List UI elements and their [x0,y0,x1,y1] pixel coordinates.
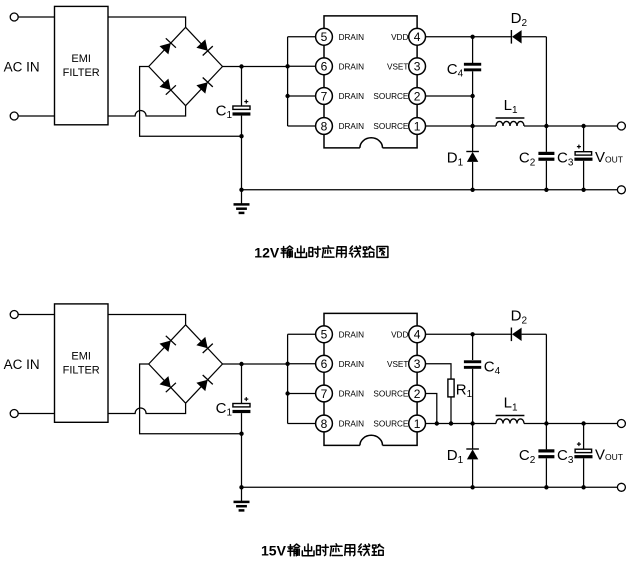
pin label SOURCE (pin 1) [373,122,409,131]
wire [288,95,316,97]
svg-text:2: 2 [414,387,421,401]
svg-text:12V: 12V [254,245,280,261]
pin label DRAIN (pin 8) [339,420,365,429]
wire [583,161,585,190]
svg-text:1: 1 [414,119,421,133]
wire [108,17,186,27]
svg-text:7: 7 [321,387,328,401]
label VOUT [595,149,623,166]
label C1 [216,400,233,419]
label AC IN [4,357,40,372]
label C3 [557,447,574,466]
svg-text:DRAIN: DRAIN [339,390,365,399]
bridge rectifier diode (bottom-left) [149,364,186,403]
label C1 [216,102,233,121]
junction [470,332,474,336]
svg-text:3: 3 [414,60,421,74]
IC U1 package [324,313,417,445]
junction [285,64,289,68]
wire [545,37,547,152]
svg-text:DRAIN: DRAIN [339,122,365,131]
svg-text:8: 8 [321,119,328,133]
junction [470,35,474,39]
junction [449,421,453,425]
pin 7 [316,385,333,402]
wire [288,393,316,395]
capacitor C4 [464,63,481,72]
svg-text:FILTER: FILTER [63,67,100,79]
junction [544,485,548,489]
junction [239,362,243,366]
wire [241,116,243,190]
inductor L1 [496,118,525,126]
wire [288,423,316,425]
svg-text:DRAIN: DRAIN [339,92,365,101]
pin 8 [316,118,333,135]
wire [472,334,474,360]
wire [287,37,289,126]
inductor L1 [496,416,525,424]
svg-text:DRAIN: DRAIN [339,360,365,369]
label C4 [484,358,501,377]
junction [239,134,243,138]
output return terminal [617,186,625,194]
wire [426,423,497,425]
junction [544,421,548,425]
wire [241,364,243,404]
junction [544,188,548,192]
junction [544,124,548,128]
svg-text:5: 5 [321,328,328,342]
wire [426,125,497,127]
svg-text:4: 4 [414,30,421,44]
wire [223,363,288,365]
wire with hop-over [108,106,186,116]
diode D2 [511,328,521,342]
pin label SOURCE (pin 1) [373,420,409,429]
svg-text:AC IN: AC IN [4,59,40,74]
pin 3 [409,58,426,75]
capacitor C1 (polarized) [233,397,251,413]
pin label DRAIN (pin 6) [339,62,365,71]
svg-text:4: 4 [414,328,421,342]
ground [234,190,250,213]
EMI filter block [55,304,109,422]
svg-text:15V: 15V [261,543,287,559]
pin 6 [316,355,333,372]
wire [583,424,585,450]
wire [18,115,54,117]
output terminal VOUT [617,122,625,130]
junction [239,485,243,489]
diode D2 [511,30,521,44]
junction [581,485,585,489]
svg-text:5: 5 [321,30,328,44]
bridge rectifier diode (bottom-right) [186,67,223,106]
junction [470,421,474,425]
svg-text:7: 7 [321,89,328,103]
label C3 [557,150,574,169]
pin label DRAIN (pin 5) [339,330,365,339]
label AC IN [4,59,40,74]
capacitor C4 [464,360,481,369]
wire [140,67,242,137]
svg-text:FILTER: FILTER [63,364,100,376]
svg-text:6: 6 [321,60,328,74]
junction [435,421,439,425]
wire [545,458,547,487]
pin 5 [316,28,333,45]
wire [288,36,316,38]
AC input terminal upper (upper circuit) [10,13,18,21]
wire [472,37,474,63]
svg-text:SOURCE: SOURCE [373,390,409,399]
junction [285,94,289,98]
wire [426,95,473,97]
pin label SOURCE (pin 2) [373,92,409,101]
bridge rectifier diode (top-right) [186,27,223,66]
output return terminal [617,483,625,491]
junction [470,485,474,489]
svg-text:SOURCE: SOURCE [373,92,409,101]
pin 6 [316,58,333,75]
wire [108,315,186,325]
diode D1 [466,449,479,487]
svg-text:VDD: VDD [391,330,408,339]
junction [470,124,474,128]
wire [522,36,547,38]
svg-text:DRAIN: DRAIN [339,330,365,339]
wire [450,397,452,424]
pin label SOURCE (pin 2) [373,390,409,399]
AC input terminal upper (lower circuit) [10,311,18,319]
EMI filter block [55,6,109,124]
AC input terminal lower (lower circuit) [10,410,18,418]
junction [470,188,474,192]
bridge rectifier diode (top-left) [149,27,186,66]
pin label DRAIN (pin 7) [339,92,365,101]
junction [581,188,585,192]
wire [241,413,243,487]
wire [426,36,512,38]
capacitor C1 (polarized) [233,100,251,116]
label D2 [511,10,528,29]
capacitor C3 (polarized) [574,145,592,161]
wire [288,363,316,365]
svg-text:DRAIN: DRAIN [339,33,365,42]
pin label VDD (pin 4) [391,33,408,42]
caption: 15V output application circuit [261,543,384,559]
label R1 [456,381,473,400]
output terminal VOUT [617,420,625,428]
label L1 [504,395,518,414]
wire [140,364,242,434]
wire [242,486,618,488]
wire [288,65,316,67]
svg-text:DRAIN: DRAIN [339,420,365,429]
svg-text:VSET: VSET [387,360,408,369]
wire [472,71,474,151]
wire [522,333,547,335]
label C2 [519,447,536,466]
wire [288,125,316,127]
AC input terminal lower (upper circuit) [10,112,18,120]
wire [426,364,452,379]
label C4 [447,61,464,80]
capacitor C2 [538,152,554,161]
bridge rectifier diode (top-left) [149,325,186,364]
diode D1 [466,152,479,190]
wire [287,334,289,423]
pin 1 [409,415,426,432]
pin label DRAIN (pin 6) [339,360,365,369]
pin 8 [316,415,333,432]
wire [545,334,547,449]
wire [18,16,54,18]
wire [426,394,437,424]
bridge rectifier diode (top-right) [186,325,223,364]
wire [426,333,512,335]
wire [583,126,585,152]
junction [239,64,243,68]
IC U1 package [324,16,417,148]
pin label VDD (pin 4) [391,330,408,339]
resistor R1 [448,379,454,397]
junction [239,432,243,436]
svg-text:DRAIN: DRAIN [339,62,365,71]
pin 4 [409,28,426,45]
caption: 12V output application circuit [254,245,388,261]
pin 7 [316,88,333,105]
wire [242,189,618,191]
junction [285,362,289,366]
wire [583,458,585,487]
bridge rectifier diode (bottom-left) [149,67,186,106]
svg-text:EMI: EMI [71,53,91,65]
pin 3 [409,355,426,372]
wire [223,66,288,68]
svg-text:3: 3 [414,357,421,371]
label D1 [447,447,464,466]
ground [234,487,250,510]
svg-text:6: 6 [321,357,328,371]
wire [18,314,54,316]
svg-text:SOURCE: SOURCE [373,420,409,429]
svg-text:SOURCE: SOURCE [373,122,409,131]
wire [524,125,617,127]
svg-text:1: 1 [414,417,421,431]
wire [472,369,474,449]
wire [524,423,617,425]
pin 4 [409,326,426,343]
svg-text:AC IN: AC IN [4,357,40,372]
pin label DRAIN (pin 8) [339,122,365,131]
svg-text:VDD: VDD [391,33,408,42]
pin 2 [409,88,426,105]
wire [18,413,54,415]
wire with hop-over [108,403,186,413]
label C2 [519,150,536,169]
pin 1 [409,118,426,135]
label D2 [511,308,528,327]
junction [239,188,243,192]
svg-text:VSET: VSET [387,62,408,71]
svg-text:8: 8 [321,417,328,431]
label VOUT [595,447,623,464]
wire [241,67,243,107]
wire [288,333,316,335]
pin label VSET (pin 3) [387,360,408,369]
junction [581,421,585,425]
junction [470,94,474,98]
pin label DRAIN (pin 7) [339,390,365,399]
capacitor C2 [538,449,554,458]
pin label VSET (pin 3) [387,62,408,71]
bridge rectifier diode (bottom-right) [186,364,223,403]
svg-text:EMI: EMI [71,350,91,362]
pin 5 [316,326,333,343]
capacitor C3 (polarized) [574,442,592,458]
wire [545,161,547,190]
junction [581,124,585,128]
label D1 [447,150,464,169]
pin label DRAIN (pin 5) [339,33,365,42]
label L1 [504,97,518,116]
junction [285,391,289,395]
svg-text:2: 2 [414,89,421,103]
pin 2 [409,385,426,402]
